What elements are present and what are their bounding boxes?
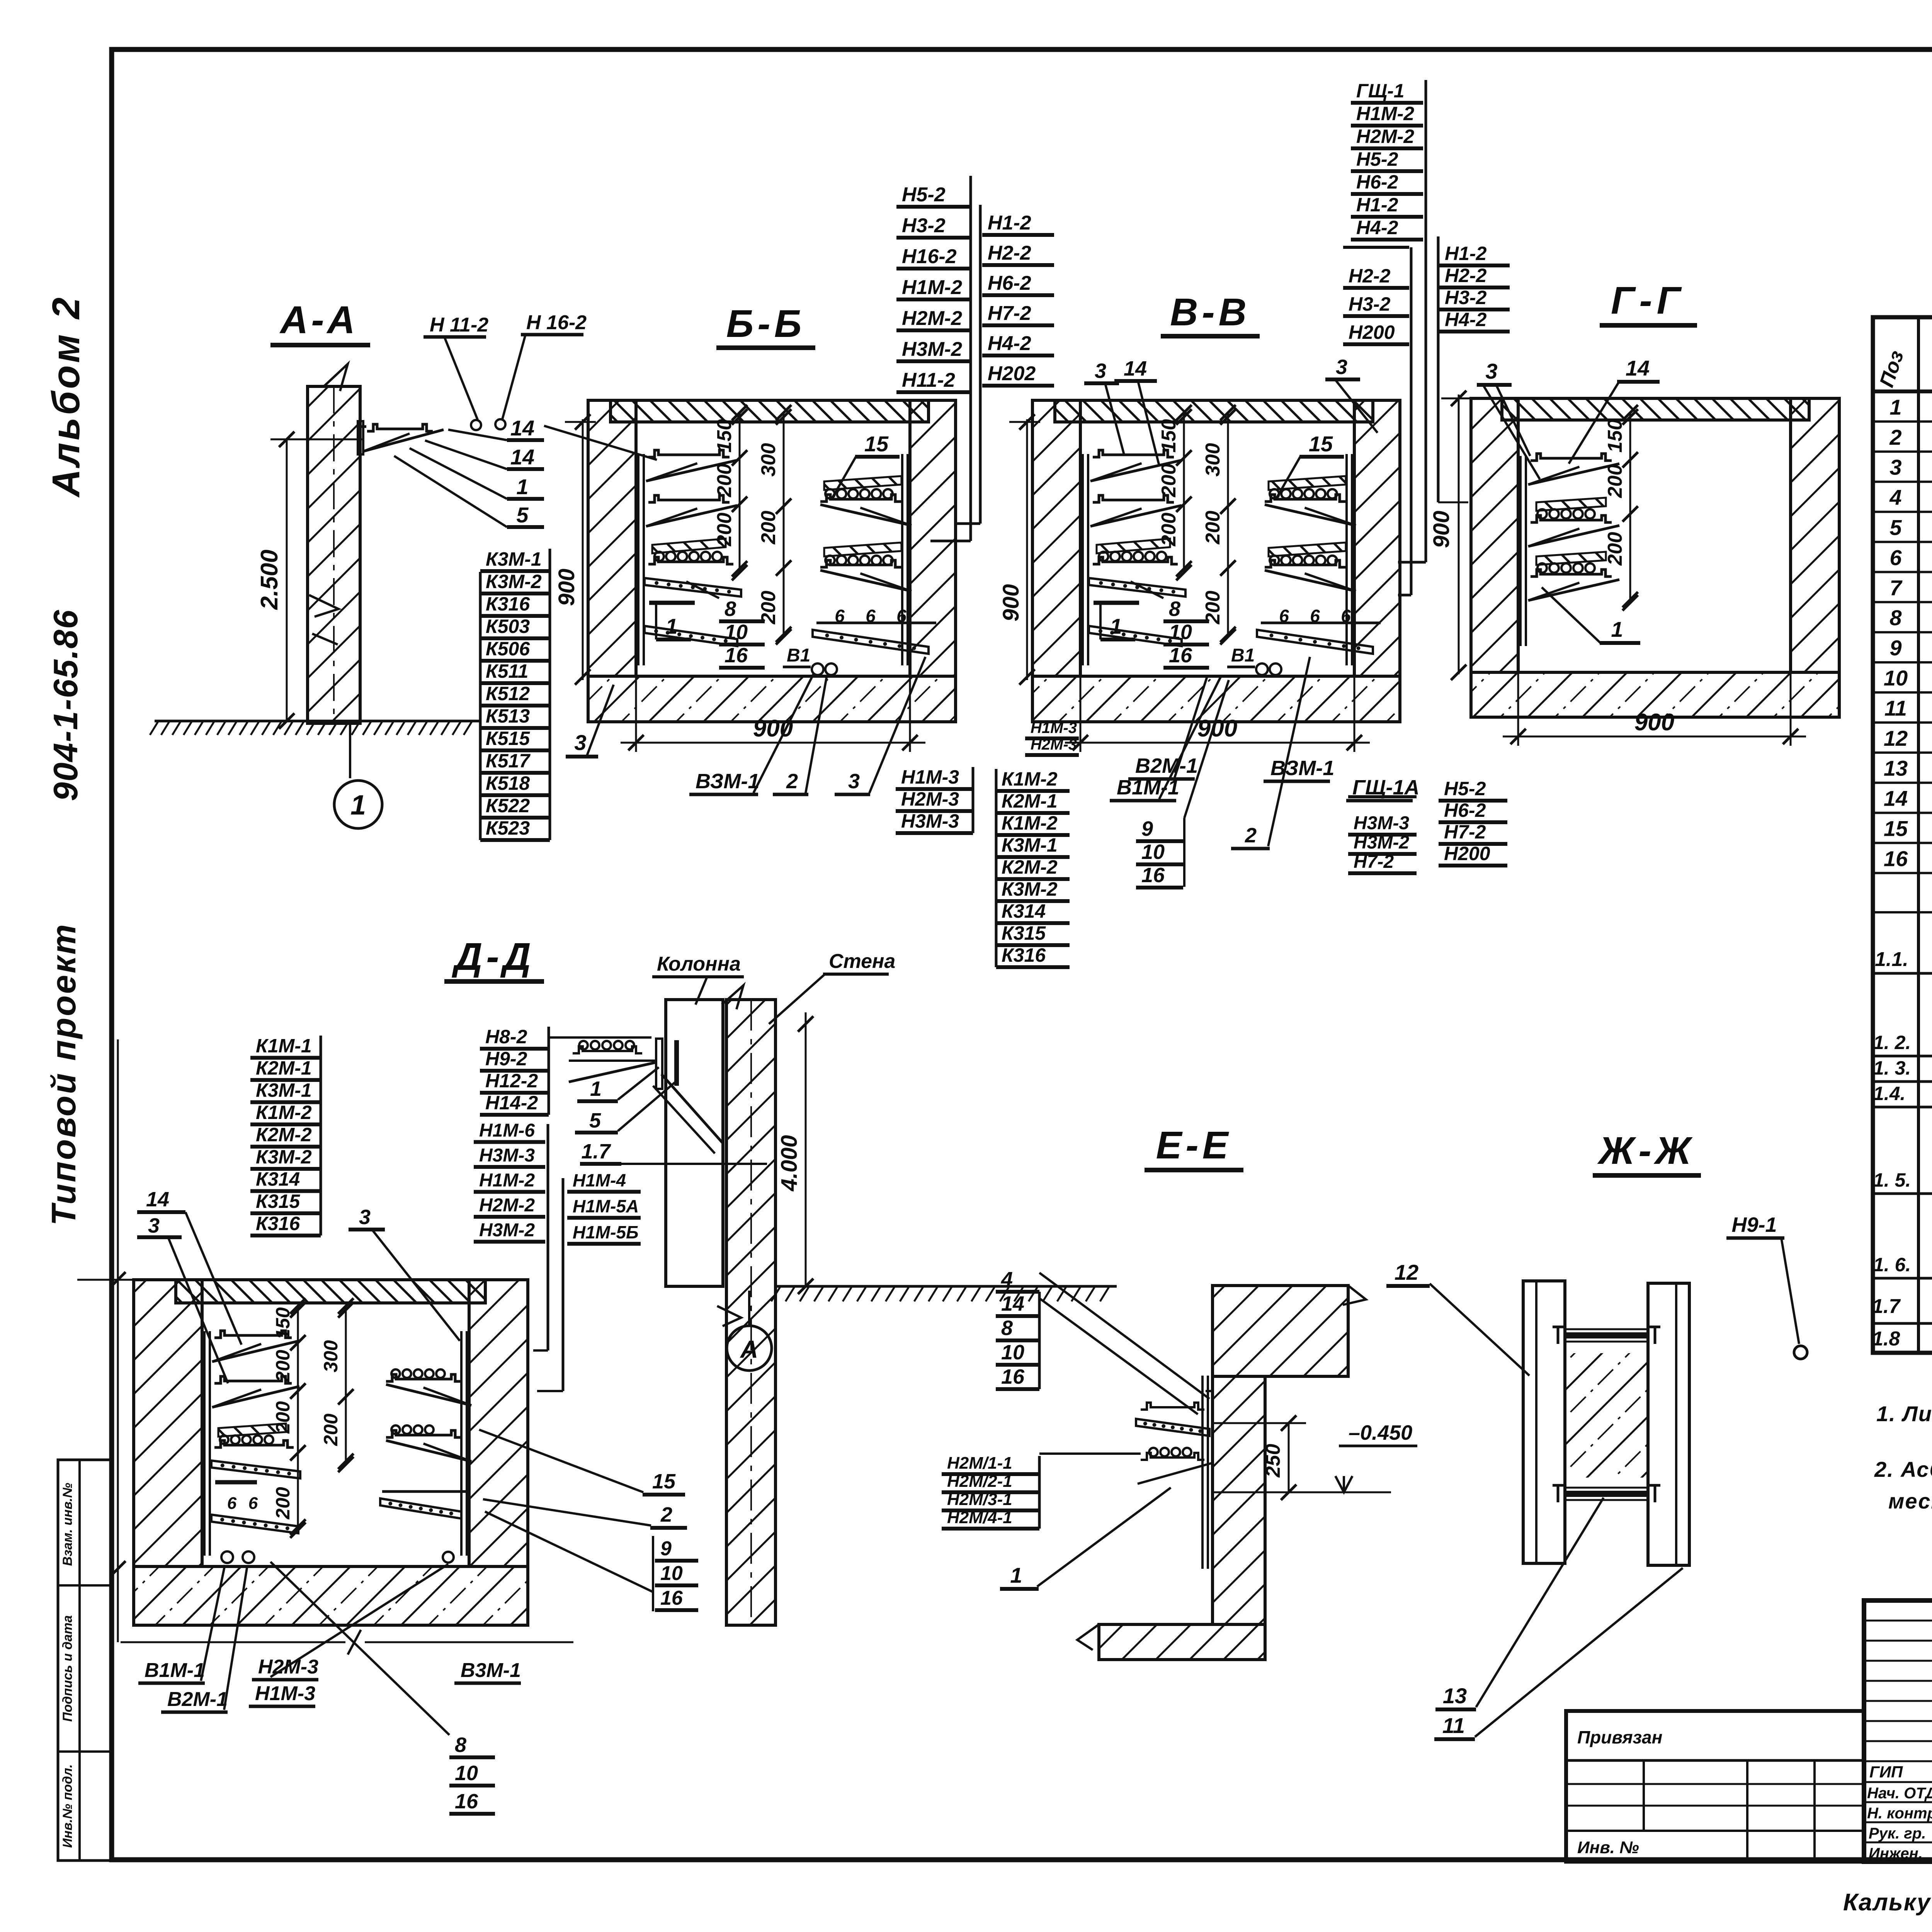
stack Н2-2 Н3-2 Н200 <box>1343 247 1411 595</box>
svg-text:11: 11 <box>1442 1713 1465 1738</box>
labels ВЗМ-1 2 3 under Б-Б <box>689 657 925 794</box>
svg-text:15: 15 <box>1884 816 1908 841</box>
note 2 <box>1874 1457 1932 1513</box>
svg-text:К316: К316 <box>486 593 530 615</box>
svg-text:К314: К314 <box>256 1168 300 1190</box>
svg-text:904-1-65.86: 904-1-65.86 <box>46 609 85 801</box>
svg-text:Н1М-5Б: Н1М-5Б <box>573 1222 639 1242</box>
svg-text:200: 200 <box>713 464 736 498</box>
svg-text:Н4-2: Н4-2 <box>1356 217 1398 238</box>
svg-text:16: 16 <box>1884 846 1908 871</box>
svg-text:Рук. гр.: Рук. гр. <box>1869 1825 1926 1842</box>
stack Н1-2..Н202 <box>956 205 1054 524</box>
svg-text:Н1М-3: Н1М-3 <box>255 1682 315 1705</box>
svg-text:Н2М/4-1: Н2М/4-1 <box>947 1508 1012 1527</box>
svg-text:В1: В1 <box>787 645 810 666</box>
section Б-Б channel <box>554 302 956 757</box>
svg-text:1: 1 <box>1889 395 1901 419</box>
svg-text:Н1М-6: Н1М-6 <box>479 1121 535 1141</box>
svg-text:200: 200 <box>713 513 736 547</box>
svg-text:ГИП: ГИП <box>1869 1763 1903 1781</box>
svg-text:Н7-2: Н7-2 <box>988 302 1031 325</box>
svg-text:1: 1 <box>1010 1563 1022 1587</box>
svg-text:К2М-1: К2М-1 <box>1002 790 1058 812</box>
svg-text:900: 900 <box>1429 511 1454 548</box>
svg-text:К2М-2: К2М-2 <box>1002 856 1058 878</box>
svg-text:Н1М-3: Н1М-3 <box>1031 719 1077 736</box>
svg-text:К523: К523 <box>486 817 530 839</box>
svg-text:Инв.№ подл.: Инв.№ подл. <box>60 1764 75 1848</box>
svg-text:16: 16 <box>455 1790 478 1813</box>
svg-text:200: 200 <box>1604 532 1626 566</box>
svg-text:150: 150 <box>272 1307 294 1340</box>
margin text Типовой проект <box>44 923 83 1226</box>
svg-text:16: 16 <box>1169 644 1192 667</box>
svg-text:Н1-2: Н1-2 <box>1356 194 1398 216</box>
svg-text:3: 3 <box>148 1214 160 1237</box>
svg-text:ГЩ-1: ГЩ-1 <box>1356 80 1405 102</box>
svg-text:2: 2 <box>1889 425 1901 449</box>
svg-text:Н3М-3: Н3М-3 <box>1354 813 1409 833</box>
svg-text:Н1М-4: Н1М-4 <box>573 1170 626 1190</box>
svg-text:К503: К503 <box>486 616 530 637</box>
svg-text:1.1.: 1.1. <box>1875 948 1908 971</box>
section В-В channel <box>998 291 1400 752</box>
svg-text:К316: К316 <box>1002 944 1046 966</box>
svg-text:ВЗМ-1: ВЗМ-1 <box>1270 757 1334 780</box>
svg-text:3: 3 <box>574 730 586 755</box>
svg-text:10: 10 <box>724 621 748 644</box>
svg-text:Инв. №: Инв. № <box>1577 1838 1639 1857</box>
svg-text:200: 200 <box>1158 464 1180 498</box>
svg-text:4: 4 <box>1889 485 1901 510</box>
svg-text:Н3М-2: Н3М-2 <box>479 1220 535 1241</box>
svg-text:Н9-1: Н9-1 <box>1731 1213 1777 1236</box>
svg-text:Н9-2: Н9-2 <box>485 1048 527 1070</box>
svg-text:13: 13 <box>1884 756 1908 781</box>
svg-text:Н5-2: Н5-2 <box>1356 148 1398 170</box>
svg-text:11: 11 <box>1884 696 1907 720</box>
svg-text:14: 14 <box>510 445 534 469</box>
label 1 under Е-Е <box>1000 1488 1171 1589</box>
svg-text:К513: К513 <box>486 705 530 727</box>
svg-text:10: 10 <box>455 1762 478 1785</box>
svg-text:2.500: 2.500 <box>256 549 283 610</box>
stack К1М-2..К316 <box>996 768 1070 967</box>
svg-text:1. 6.: 1. 6. <box>1873 1254 1911 1276</box>
svg-text:Н1М-5А: Н1М-5А <box>573 1196 639 1216</box>
svg-text:А: А <box>740 1335 758 1363</box>
margin text 904-1-65.86 <box>46 609 85 801</box>
svg-text:3: 3 <box>1095 359 1106 383</box>
title block <box>1864 1600 1932 1862</box>
svg-text:Н5-2: Н5-2 <box>902 184 946 206</box>
svg-text:К315: К315 <box>1002 922 1046 944</box>
svg-text:Н6-2: Н6-2 <box>988 272 1031 294</box>
svg-text:200: 200 <box>320 1413 342 1446</box>
svg-text:Н5-2: Н5-2 <box>1444 778 1486 799</box>
stack Н2М/1-1..Н2М/4-1 <box>942 1454 1141 1529</box>
svg-text:3: 3 <box>1336 355 1347 379</box>
svg-text:Н4-2: Н4-2 <box>988 332 1031 355</box>
svg-text:200: 200 <box>757 511 780 545</box>
svg-text:Н1М-2: Н1М-2 <box>1356 103 1414 124</box>
svg-text:Н200: Н200 <box>1349 321 1395 343</box>
svg-text:месту монтажа.: месту монтажа. <box>1888 1489 1932 1513</box>
labels 15 2 and stack 9 10 16 right of Д-Д <box>479 1430 698 1611</box>
svg-text:Н3-2: Н3-2 <box>1349 293 1391 315</box>
svg-text:3: 3 <box>1889 455 1901 480</box>
section Д-Д <box>77 935 1117 1655</box>
svg-text:Н2М-2: Н2М-2 <box>1356 126 1414 147</box>
svg-text:Н6-2: Н6-2 <box>1444 799 1486 821</box>
svg-text:900: 900 <box>554 569 579 606</box>
svg-text:14: 14 <box>1884 786 1908 811</box>
svg-text:3: 3 <box>1485 359 1497 383</box>
svg-text:300: 300 <box>1202 443 1224 477</box>
svg-text:Н12-2: Н12-2 <box>485 1070 538 1092</box>
svg-text:10: 10 <box>1141 840 1165 864</box>
svg-text:1.7: 1.7 <box>581 1140 611 1163</box>
svg-text:14: 14 <box>1626 356 1650 380</box>
svg-text:К2М-1: К2М-1 <box>256 1057 312 1079</box>
svg-text:250: 250 <box>1262 1444 1284 1478</box>
svg-text:16: 16 <box>1001 1365 1025 1388</box>
svg-text:14: 14 <box>1124 357 1147 380</box>
svg-text:ВЗМ-1: ВЗМ-1 <box>696 770 759 793</box>
svg-text:Колонна: Колонна <box>657 953 741 975</box>
block Привязан <box>1566 1711 1864 1862</box>
svg-text:Н1М-2: Н1М-2 <box>902 276 962 299</box>
stack ГЩ-1..Н4-2 above В-В <box>1351 80 1426 562</box>
svg-text:14: 14 <box>1001 1292 1024 1315</box>
svg-text:Н3М-3: Н3М-3 <box>901 810 959 832</box>
svg-text:К315: К315 <box>256 1190 300 1212</box>
svg-text:3: 3 <box>359 1206 371 1229</box>
svg-text:200: 200 <box>272 1487 294 1520</box>
svg-text:Н 16-2: Н 16-2 <box>526 311 587 334</box>
svg-text:К522: К522 <box>486 795 530 816</box>
svg-text:Д-Д: Д-Д <box>451 935 535 978</box>
svg-text:14: 14 <box>510 416 534 440</box>
svg-text:Н3М-2: Н3М-2 <box>1354 832 1409 853</box>
svg-text:Н6-2: Н6-2 <box>1356 171 1398 193</box>
svg-text:1. 2.: 1. 2. <box>1873 1032 1911 1053</box>
labels В2М-1 В1М-1 ВЗМ-1 ГЩ-1А under В-В <box>1110 675 1420 801</box>
svg-text:Типовой проект: Типовой проект <box>44 923 83 1226</box>
svg-text:8: 8 <box>724 597 736 621</box>
svg-text:Н3М-2: Н3М-2 <box>902 338 962 361</box>
svg-text:12: 12 <box>1884 726 1908 750</box>
svg-text:Н2М-2: Н2М-2 <box>902 307 962 330</box>
svg-text:15: 15 <box>1309 432 1333 456</box>
svg-text:Н2М-3: Н2М-3 <box>901 788 959 810</box>
svg-text:13: 13 <box>1443 1684 1467 1708</box>
svg-text:300: 300 <box>757 443 780 477</box>
svg-text:Нач. ОТД: Нач. ОТД <box>1867 1785 1932 1802</box>
labels 1 5 1.7 in Д-Д <box>575 1067 767 1164</box>
svg-text:К512: К512 <box>486 683 530 704</box>
svg-text:10: 10 <box>1884 666 1908 690</box>
svg-text:10: 10 <box>1169 621 1192 644</box>
svg-text:Н. контр.: Н. контр. <box>1867 1805 1932 1822</box>
svg-text:1: 1 <box>1611 617 1623 641</box>
svg-text:Е-Е: Е-Е <box>1156 1124 1232 1167</box>
stack 9 10 16 under В-В <box>1136 680 1229 888</box>
svg-text:2. Асбестоцементные плиты: 2. Асбестоцементные плиты поз. 16 нареза… <box>1874 1457 1932 1481</box>
svg-text:К511: К511 <box>486 660 528 682</box>
svg-text:200: 200 <box>272 1401 294 1434</box>
svg-text:Н200: Н200 <box>1444 843 1490 864</box>
svg-text:К314: К314 <box>1002 900 1046 922</box>
svg-text:6: 6 <box>1889 545 1902 570</box>
svg-text:Н2М-3: Н2М-3 <box>1031 736 1077 753</box>
note 1 <box>1876 1401 1932 1426</box>
margin strip boxes <box>58 1460 112 1861</box>
svg-text:Подпись и дата: Подпись и дата <box>60 1615 75 1722</box>
svg-text:Б-Б: Б-Б <box>726 302 806 345</box>
stack Н3М-3 Н3М-2 Н7-2 <box>1348 797 1417 873</box>
svg-text:1. 3.: 1. 3. <box>1873 1057 1911 1079</box>
svg-text:К3М-1: К3М-1 <box>256 1080 312 1101</box>
svg-text:Н2-2: Н2-2 <box>988 242 1031 264</box>
svg-text:Н4-2: Н4-2 <box>1445 309 1487 330</box>
stack Н8-2..Н14-2 <box>480 1026 651 1115</box>
svg-text:К506: К506 <box>486 638 530 660</box>
stack Н5-2..Н200 under Г-Г <box>1439 778 1507 866</box>
svg-text:Н2М/3-1: Н2М/3-1 <box>947 1490 1012 1509</box>
svg-text:1: 1 <box>665 614 677 638</box>
svg-text:10: 10 <box>1001 1341 1024 1364</box>
svg-text:7: 7 <box>1889 575 1903 600</box>
svg-text:14: 14 <box>146 1188 169 1211</box>
svg-text:К515: К515 <box>486 728 530 749</box>
svg-text:Г-Г: Г-Г <box>1611 279 1685 322</box>
svg-text:1: 1 <box>350 790 366 821</box>
bottom caption <box>1843 1889 1932 1916</box>
parts table <box>1872 317 1932 1355</box>
svg-text:15: 15 <box>864 432 889 456</box>
svg-text:Взам. инв.№: Взам. инв.№ <box>60 1483 75 1566</box>
svg-text:А-А: А-А <box>279 298 358 342</box>
svg-text:Н202: Н202 <box>988 362 1036 385</box>
svg-text:900: 900 <box>1634 709 1674 736</box>
svg-text:К3М-1: К3М-1 <box>486 548 542 570</box>
svg-text:К1М-1: К1М-1 <box>256 1035 312 1057</box>
svg-text:Н2М-2: Н2М-2 <box>479 1195 535 1216</box>
margin text Альбом 2 <box>44 295 88 498</box>
section Е-Е <box>1077 1124 1417 1660</box>
stack Н1М-3 Н2М-3 small <box>1025 719 1079 755</box>
svg-text:15: 15 <box>652 1470 676 1493</box>
svg-text:В2М-1: В2М-1 <box>1135 754 1198 777</box>
svg-text:Н3-2: Н3-2 <box>902 214 946 237</box>
svg-text:Н11-2: Н11-2 <box>902 369 955 391</box>
svg-text:Привязан: Привязан <box>1577 1727 1662 1747</box>
svg-text:Н2М/2-1: Н2М/2-1 <box>947 1472 1012 1491</box>
section Ж-Ж <box>1386 1129 1807 1739</box>
svg-text:16: 16 <box>724 644 748 667</box>
svg-text:Н 11-2: Н 11-2 <box>430 314 488 336</box>
svg-text:8: 8 <box>1001 1316 1013 1340</box>
svg-text:1. 5.: 1. 5. <box>1873 1169 1911 1191</box>
labels В1М-1 В2М-1 Н2М-3 Н1М-3 В3М-1 under Д-Д <box>138 1564 521 1712</box>
svg-text:Н3М-3: Н3М-3 <box>479 1145 535 1166</box>
svg-text:2: 2 <box>660 1503 672 1526</box>
svg-text:Н1-2: Н1-2 <box>988 212 1031 234</box>
svg-text:9: 9 <box>1141 817 1153 840</box>
svg-text:Н1М-2: Н1М-2 <box>479 1170 535 1191</box>
svg-text:8: 8 <box>1169 597 1180 621</box>
svg-text:1.8: 1.8 <box>1872 1328 1900 1350</box>
svg-text:8: 8 <box>1889 605 1902 630</box>
svg-text:К518: К518 <box>486 772 530 794</box>
label stack К3М-1..К523 <box>480 548 550 840</box>
svg-text:16: 16 <box>660 1587 683 1609</box>
svg-text:1: 1 <box>1110 614 1122 638</box>
svg-text:300: 300 <box>320 1340 342 1372</box>
svg-text:Инжен.: Инжен. <box>1869 1845 1923 1862</box>
svg-text:6: 6 <box>248 1494 258 1513</box>
section Г-Г channel <box>1429 279 1839 746</box>
svg-text:10: 10 <box>660 1562 683 1585</box>
svg-text:200: 200 <box>1202 511 1224 545</box>
svg-text:900: 900 <box>998 584 1024 622</box>
svg-text:Ж-Ж: Ж-Ж <box>1597 1129 1695 1172</box>
svg-text:В3М-1: В3М-1 <box>461 1659 521 1682</box>
svg-text:1.4.: 1.4. <box>1873 1083 1905 1104</box>
svg-text:В1: В1 <box>1231 645 1255 666</box>
stack Н1М-6..Н3М-2 <box>474 1121 548 1351</box>
svg-text:2: 2 <box>786 770 798 793</box>
stack 8 10 16 under Д-Д <box>270 1562 495 1814</box>
svg-text:1: 1 <box>590 1077 602 1100</box>
stack Н1М-3 Н2М-3 Н3М-3 <box>896 766 973 833</box>
svg-text:3: 3 <box>848 770 860 793</box>
svg-text:Стена: Стена <box>829 950 895 973</box>
svg-text:Н2-2: Н2-2 <box>1349 265 1391 287</box>
svg-text:К517: К517 <box>486 750 531 772</box>
svg-text:К3М-1: К3М-1 <box>1002 834 1058 856</box>
stack Н1М-4..Н1М-5Б <box>537 1170 641 1391</box>
svg-text:12: 12 <box>1395 1260 1418 1284</box>
svg-text:16: 16 <box>1141 864 1165 887</box>
svg-text:4.000: 4.000 <box>777 1135 802 1191</box>
svg-text:1. Лист рассматривать со: 1. Лист рассматривать совместно с листам… <box>1876 1401 1932 1426</box>
svg-text:В-В: В-В <box>1170 291 1250 334</box>
svg-text:5: 5 <box>1889 515 1902 540</box>
stack Н1-2..Н4-2 right <box>1438 236 1510 502</box>
svg-text:1: 1 <box>516 474 528 499</box>
svg-text:6: 6 <box>227 1494 237 1513</box>
section А-А <box>150 298 657 828</box>
svg-text:9: 9 <box>660 1537 672 1560</box>
stack 4 14 8 10 16 left of Е-Е <box>996 1268 1209 1414</box>
stack Н5-2..Н11-2 <box>896 176 971 541</box>
svg-text:К1М-2: К1М-2 <box>1002 812 1058 834</box>
svg-text:5: 5 <box>516 503 529 527</box>
svg-text:200: 200 <box>1604 464 1626 498</box>
svg-text:К3М-2: К3М-2 <box>486 571 542 592</box>
svg-text:Н2-2: Н2-2 <box>1445 265 1487 286</box>
svg-text:Н1М-3: Н1М-3 <box>901 766 959 788</box>
svg-text:200: 200 <box>1158 513 1180 547</box>
svg-text:8: 8 <box>455 1733 466 1757</box>
svg-text:Кальку сверил Выприцкий: Кальку сверил Выприцкий <box>1843 1889 1932 1916</box>
svg-text:К316: К316 <box>256 1213 300 1235</box>
svg-text:Н3-2: Н3-2 <box>1445 287 1487 308</box>
svg-text:Н7-2: Н7-2 <box>1354 852 1394 872</box>
svg-text:200: 200 <box>272 1350 294 1383</box>
svg-text:5: 5 <box>589 1109 601 1132</box>
labels 3 14 3 above В-В <box>1084 355 1378 466</box>
svg-text:9: 9 <box>1889 636 1901 660</box>
svg-text:К3М-2: К3М-2 <box>256 1146 312 1168</box>
svg-text:К2М-2: К2М-2 <box>256 1124 312 1146</box>
svg-text:К1М-2: К1М-2 <box>256 1102 312 1123</box>
svg-text:Н8-2: Н8-2 <box>485 1026 527 1048</box>
svg-text:Н16-2: Н16-2 <box>902 245 957 268</box>
svg-text:Н1-2: Н1-2 <box>1445 243 1487 264</box>
svg-text:В2М-1: В2М-1 <box>167 1688 228 1711</box>
svg-text:1.7: 1.7 <box>1872 1295 1901 1318</box>
svg-text:К3М-2: К3М-2 <box>1002 878 1058 900</box>
svg-text:В1М-1: В1М-1 <box>145 1659 205 1682</box>
stack К1М-1..К316 left <box>250 1035 321 1236</box>
svg-text:Н14-2: Н14-2 <box>485 1092 538 1114</box>
svg-text:2: 2 <box>1245 824 1257 847</box>
svg-text:К1М-2: К1М-2 <box>1002 768 1058 790</box>
svg-text:Альбом 2: Альбом 2 <box>44 295 88 498</box>
svg-text:4: 4 <box>1001 1268 1013 1291</box>
svg-text:Н2М/1-1: Н2М/1-1 <box>947 1454 1012 1473</box>
svg-text:–0.450: –0.450 <box>1349 1421 1412 1444</box>
svg-text:Н7-2: Н7-2 <box>1444 821 1486 843</box>
label 2 under В-В <box>1231 657 1310 849</box>
